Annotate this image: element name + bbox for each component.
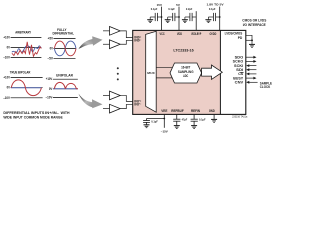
IC U1 LTC2333-16 body <box>133 30 246 114</box>
note SAMPLE CLOCK <box>260 81 273 89</box>
svg-text:5V: 5V <box>176 3 180 7</box>
pin CS label with overline <box>238 72 244 76</box>
ground for VDDLBYP cap <box>182 20 188 23</box>
pin label PD <box>238 36 243 40</box>
ground for REFBUF cap <box>174 126 180 129</box>
vertical ellipsis between buffer pairs <box>117 67 119 80</box>
plot FULLY DIFFERENTIAL gridlines <box>54 39 76 59</box>
svg-text:+10V: +10V <box>3 35 10 39</box>
svg-text:CLOCK: CLOCK <box>260 85 271 89</box>
wire LVDS/CMOS and PD to ground <box>246 35 252 44</box>
svg-text:VEE: VEE <box>161 109 168 113</box>
svg-text:+10V: +10V <box>3 76 10 80</box>
capacitor 0.1uF on REFIN <box>191 114 206 125</box>
svg-text:I/O INTERFACE: I/O INTERFACE <box>243 23 267 27</box>
pin SDO label <box>235 55 244 59</box>
capacitor 47uF on REFBUF <box>173 114 187 125</box>
plot ARBITRARY axis value labels <box>3 35 10 59</box>
capacitor 0.1uF on VDD <box>168 7 179 21</box>
svg-text:–10V: –10V <box>3 96 10 100</box>
svg-text:GND: GND <box>209 109 215 113</box>
VEE rail to -15V <box>161 114 168 133</box>
pin BUSY output arrow <box>246 77 257 80</box>
plot FULLY DIFFERENTIAL title <box>53 28 75 35</box>
svg-text:0V: 0V <box>50 47 54 51</box>
figure number label <box>232 115 248 118</box>
capacitor 2.2uF on VDDLBYP <box>185 7 196 21</box>
svg-text:VDD: VDD <box>177 32 182 36</box>
wire MUX to ADC - <box>156 77 172 79</box>
svg-text:DIFFERENTIAL: DIFFERENTIAL <box>53 31 75 35</box>
plot FULLY DIFFERENTIAL axis value labels <box>47 37 53 61</box>
pin label LVDS/CMOS <box>225 31 243 35</box>
pin CNV label <box>235 81 244 85</box>
plot ARBITRARY blue waveform <box>12 46 41 53</box>
svg-text:233316 TA01a: 233316 TA01a <box>232 115 248 118</box>
VCC supply rail 15V <box>157 3 163 30</box>
pin SDI label <box>236 68 243 72</box>
pin BUSY label <box>233 76 244 80</box>
svg-text:VDDLBYP: VDDLBYP <box>191 32 201 36</box>
svg-text:LTC2333-16: LTC2333-16 <box>173 48 193 52</box>
ADC hexagon 16-BIT SAMPLING ADC <box>170 63 202 83</box>
svg-text:0V: 0V <box>7 46 11 50</box>
capacitor 0.1uF on VCC <box>150 7 161 21</box>
pin label IN7- <box>134 103 141 107</box>
plot UNIPOLAR title <box>56 74 73 78</box>
svg-text:0V: 0V <box>49 87 53 91</box>
swoosh arrow bottom (unipolar to buffers) <box>79 94 103 109</box>
svg-text:IN7⁻: IN7⁻ <box>134 103 141 107</box>
svg-text:LVDS/CMOS: LVDS/CMOS <box>225 31 243 35</box>
buffer amp A3 (IN7+) <box>103 91 120 100</box>
pin label VCC <box>160 32 165 36</box>
plot TRUE BIPOLAR blue flat 0V line <box>11 87 42 89</box>
pin CS input arrow <box>246 73 256 76</box>
svg-text:15V: 15V <box>157 3 162 7</box>
swoosh arrow top (fully differential to buffers) <box>79 36 103 49</box>
VDD supply rail 5V <box>176 3 180 30</box>
note CMOS OR LVDS I/O INTERFACE <box>242 19 267 28</box>
wire A3 output to IN7+ pin <box>120 95 132 101</box>
plot UNIPOLAR gridlines <box>53 79 78 97</box>
buffer amp A2 (IN0-) <box>103 40 120 49</box>
svg-text:0.1µF: 0.1µF <box>151 120 158 124</box>
plot FULLY DIFFERENTIAL blue sine <box>54 41 76 56</box>
pin label REFBUF <box>171 109 184 113</box>
pin label VDD <box>177 32 182 36</box>
svg-text:0.1µF: 0.1µF <box>209 7 216 11</box>
plot TRUE BIPOLAR red sine <box>11 80 41 96</box>
IC U1 part name label <box>173 48 193 52</box>
ground for VEE cap <box>144 125 150 128</box>
wire MUX to ADC + <box>156 67 172 69</box>
wire A1 output to IN0+ pin <box>120 31 132 38</box>
MUX block <box>146 31 157 112</box>
wire A2 output to IN0- pin <box>120 40 132 44</box>
pin label IN0+ <box>134 36 141 40</box>
ground for VCC cap <box>147 20 153 23</box>
svg-text:OVDD: OVDD <box>209 32 216 36</box>
svg-text:MUX: MUX <box>147 71 154 75</box>
pin SCKI label <box>234 64 243 68</box>
svg-text:0V: 0V <box>7 86 11 90</box>
svg-text:47µF: 47µF <box>182 118 188 122</box>
ground for OVDD cap <box>205 20 211 23</box>
svg-text:ARBITRARY: ARBITRARY <box>15 31 31 35</box>
svg-text:–10V: –10V <box>46 96 53 100</box>
svg-text:0.1µF: 0.1µF <box>168 7 175 11</box>
ground for LVDS/CMOS-PD <box>249 44 255 47</box>
plot ARBITRARY title <box>15 31 31 35</box>
svg-text:VCC: VCC <box>160 32 165 36</box>
pin label IN7+ <box>134 100 141 104</box>
pin SDI input arrow <box>246 68 256 71</box>
pin label VDDLBYP <box>191 32 201 36</box>
ground for VDD cap <box>165 20 171 23</box>
svg-text:CMOS OR LVDS: CMOS OR LVDS <box>242 19 267 23</box>
svg-text:–5V: –5V <box>47 56 53 60</box>
svg-text:1.8V TO 5V: 1.8V TO 5V <box>207 2 224 6</box>
caption line 1: DIFFERENTIAL INPUTS IN+/IN- WITH <box>3 111 69 115</box>
buffer amp A4 (IN7-) <box>103 104 120 113</box>
svg-text:0.1µF: 0.1µF <box>151 7 158 11</box>
svg-text:PD: PD <box>238 36 243 40</box>
pin label IN0- <box>134 39 141 43</box>
svg-text:REFIN: REFIN <box>191 109 200 113</box>
plot TRUE BIPOLAR title <box>10 70 31 74</box>
svg-text:CNV: CNV <box>235 81 244 85</box>
svg-text:2.2µF: 2.2µF <box>186 7 193 11</box>
svg-text:REFBUF: REFBUF <box>171 109 184 113</box>
svg-text:+5V: +5V <box>48 37 54 41</box>
pin label OVDD <box>209 32 216 36</box>
OVDD supply rail 1.8V TO 5V <box>207 2 224 30</box>
pin label REFIN <box>191 109 200 113</box>
ground for REFIN cap <box>191 126 197 129</box>
capacitor 0.1uF on VEE <box>143 119 164 125</box>
svg-text:0.1µF: 0.1µF <box>199 118 206 122</box>
plot ARBITRARY red waveform <box>12 42 41 57</box>
pin SCKI input arrow <box>246 64 256 67</box>
wire A4 output to IN7- pin <box>120 104 132 108</box>
svg-text:+10V: +10V <box>46 77 53 81</box>
caption line 2 <box>3 115 63 119</box>
plot TRUE BIPOLAR axis value labels <box>3 76 10 100</box>
pin label VEE <box>161 109 168 113</box>
ground for GND pin <box>211 119 217 122</box>
junction node at PD <box>251 39 253 41</box>
svg-text:TRUE BIPOLAR: TRUE BIPOLAR <box>10 70 31 74</box>
plot TRUE BIPOLAR gridlines <box>11 78 43 98</box>
buffer amp A1 (IN0+) <box>103 27 120 36</box>
GND pin wire <box>213 114 215 119</box>
pin SDO output arrow <box>246 56 257 59</box>
pin label GND <box>209 109 215 113</box>
plot UNIPOLAR red unipolar sine <box>54 82 78 88</box>
svg-text:ADC: ADC <box>183 74 189 78</box>
svg-text:–10V: –10V <box>3 56 10 60</box>
capacitor 0.1uF on OVDD <box>208 7 219 21</box>
plot ARBITRARY gridlines <box>11 37 42 57</box>
svg-text:UNIPOLAR: UNIPOLAR <box>56 74 73 78</box>
VDDLBYP rail <box>195 11 197 30</box>
pin CNV input arrow <box>246 81 257 84</box>
plot UNIPOLAR axis value labels <box>46 77 53 99</box>
pin SCKO output arrow <box>246 60 257 63</box>
svg-text:–15V: –15V <box>161 129 168 133</box>
pin SCKO label <box>233 60 244 64</box>
plot FULLY DIFFERENTIAL red sine <box>54 41 76 56</box>
data output block arrow <box>202 65 223 79</box>
plot UNIPOLAR blue flat 0V line <box>53 88 78 90</box>
svg-text:IN0⁻: IN0⁻ <box>134 39 141 43</box>
svg-text:WIDE INPUT COMMON MODE RANGE: WIDE INPUT COMMON MODE RANGE <box>3 115 63 119</box>
